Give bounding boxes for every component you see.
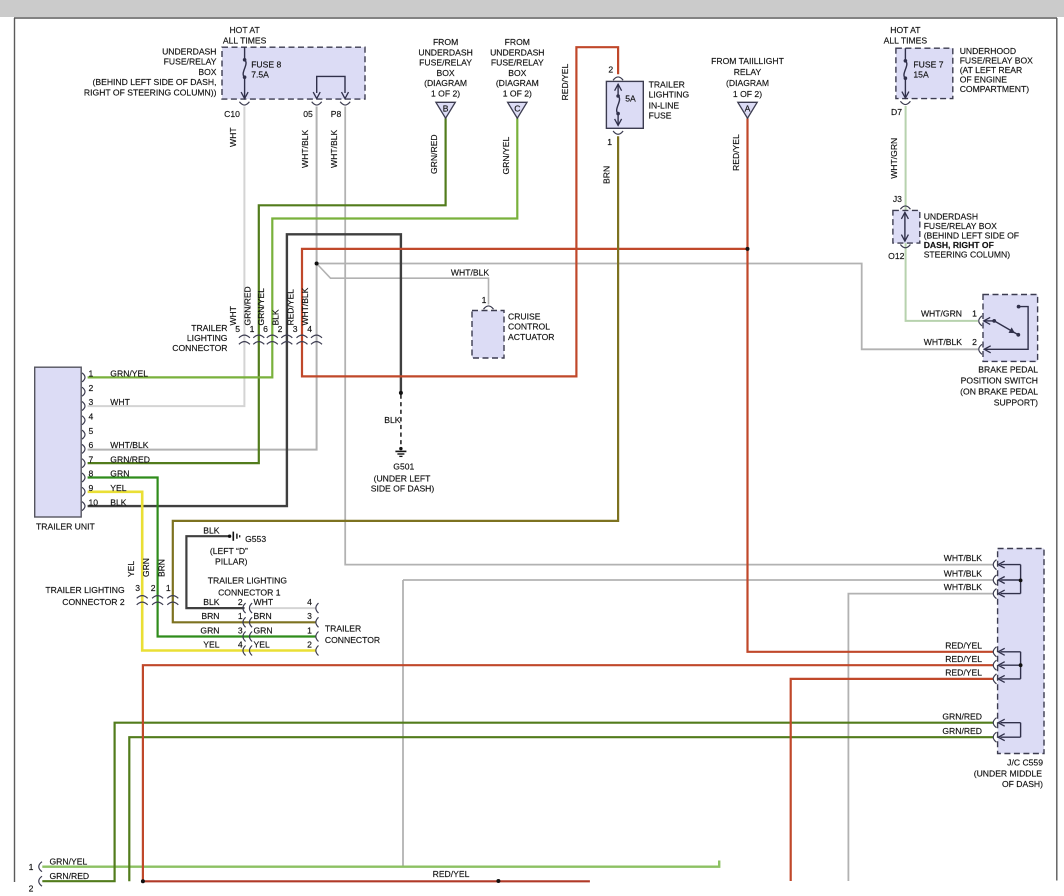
- trailer unit: [35, 367, 81, 517]
- svg-text:7: 7: [89, 454, 94, 464]
- svg-text:C: C: [514, 104, 520, 114]
- svg-text:FUSE 8: FUSE 8: [251, 60, 281, 70]
- svg-text:GRN: GRN: [254, 625, 273, 635]
- svg-text:(DIAGRAM: (DIAGRAM: [496, 78, 539, 88]
- svg-text:HOT AT: HOT AT: [890, 25, 921, 35]
- svg-text:OF DASH): OF DASH): [1002, 779, 1043, 789]
- underhood fuse/relay box: [896, 48, 953, 98]
- svg-text:WHT: WHT: [228, 127, 238, 147]
- svg-text:RED/YEL: RED/YEL: [731, 134, 741, 171]
- svg-text:TRAILER: TRAILER: [649, 80, 685, 90]
- svg-text:B: B: [443, 104, 449, 114]
- svg-text:(BEHIND LEFT SIDE OF: (BEHIND LEFT SIDE OF: [924, 231, 1019, 241]
- wire YEL trailer unit pin 9 to trailer connector: [88, 492, 316, 651]
- svg-text:WHT/BLK: WHT/BLK: [944, 569, 982, 579]
- svg-text:FUSE: FUSE: [649, 111, 672, 121]
- wire WHT/GRN D7-J3-O12 to brake pedal switch pin 1: [906, 106, 978, 321]
- wire RED/YEL from in-line fuse pin 2 loop to junction: [302, 47, 748, 376]
- underdash fuse/relay box (pass-through): [893, 210, 920, 243]
- svg-text:05: 05: [303, 109, 313, 119]
- svg-text:BLK: BLK: [110, 497, 127, 507]
- svg-text:BOX: BOX: [437, 68, 455, 78]
- wire GRN/RED second to J/C C559 pin GRN/RED 2: [129, 737, 993, 881]
- svg-text:BRN: BRN: [602, 166, 612, 184]
- svg-text:(UNDER LEFT: (UNDER LEFT: [374, 474, 432, 484]
- svg-text:GRN/YEL: GRN/YEL: [110, 369, 148, 379]
- svg-text:GRN: GRN: [200, 625, 219, 635]
- svg-text:CRUISE: CRUISE: [508, 312, 541, 322]
- wire WHT right half of row 1: [251, 607, 317, 609]
- svg-text:HOT AT: HOT AT: [229, 25, 260, 35]
- svg-text:RIGHT OF STEERING COLUMN)): RIGHT OF STEERING COLUMN)): [84, 87, 217, 97]
- svg-text:6: 6: [89, 440, 94, 450]
- wire WHT C10 to trailer unit pin 3: [88, 107, 245, 407]
- svg-text:UNDERDASH: UNDERDASH: [162, 47, 216, 57]
- svg-text:P8: P8: [331, 109, 342, 119]
- svg-text:G553: G553: [245, 534, 266, 544]
- underdash fuse/relay box: [222, 47, 365, 99]
- svg-text:RED/YEL: RED/YEL: [433, 869, 470, 879]
- svg-text:WHT/BLK: WHT/BLK: [451, 268, 489, 278]
- svg-text:15A: 15A: [913, 70, 929, 80]
- svg-text:2: 2: [151, 583, 156, 593]
- trailer unit pin 5: [82, 430, 85, 439]
- svg-text:WHT/GRN: WHT/GRN: [889, 138, 899, 179]
- svg-text:3: 3: [89, 397, 94, 407]
- svg-text:BRN: BRN: [201, 611, 219, 621]
- junction connector J/C C559: [998, 549, 1044, 754]
- ground G553: [228, 535, 231, 538]
- svg-text:TRAILER LIGHTING: TRAILER LIGHTING: [45, 585, 125, 595]
- trailer unit pin 8: [82, 473, 85, 482]
- svg-text:OF ENGINE: OF ENGINE: [960, 75, 1008, 85]
- svg-text:RED/YEL: RED/YEL: [560, 64, 570, 101]
- svg-text:1: 1: [166, 583, 171, 593]
- frame border: [14, 18, 16, 882]
- svg-text:YEL: YEL: [110, 483, 126, 493]
- svg-text:GRN/RED: GRN/RED: [50, 871, 90, 881]
- svg-text:WHT: WHT: [254, 597, 274, 607]
- svg-text:PILLAR): PILLAR): [215, 557, 248, 567]
- trailer unit pin 10: [82, 502, 85, 511]
- svg-text:CONNECTOR: CONNECTOR: [172, 343, 227, 353]
- svg-text:(LEFT “D”: (LEFT “D”: [210, 546, 248, 556]
- svg-text:UNDERDASH: UNDERDASH: [924, 212, 978, 222]
- svg-text:GRN/RED: GRN/RED: [942, 726, 982, 736]
- svg-text:(UNDER MIDDLE: (UNDER MIDDLE: [974, 769, 1043, 779]
- svg-text:3: 3: [135, 583, 140, 593]
- svg-text:LIGHTING: LIGHTING: [649, 90, 690, 100]
- svg-text:3: 3: [307, 611, 312, 621]
- svg-text:COMPARTMENT): COMPARTMENT): [960, 84, 1030, 94]
- svg-text:WHT/GRN: WHT/GRN: [921, 309, 962, 319]
- trailer unit pin 9: [82, 487, 85, 496]
- trailer unit pin 4: [82, 416, 85, 425]
- wire RED/YEL from J/C C559 pin 3 down: [791, 679, 993, 881]
- svg-text:TRAILER UNIT: TRAILER UNIT: [36, 522, 95, 532]
- svg-text:BRAKE PEDAL: BRAKE PEDAL: [978, 365, 1038, 375]
- svg-text:2: 2: [29, 884, 34, 894]
- svg-text:RED/YEL: RED/YEL: [945, 668, 982, 678]
- svg-text:BRN: BRN: [156, 559, 166, 577]
- svg-text:IN-LINE: IN-LINE: [649, 101, 680, 111]
- svg-text:FUSE/RELAY BOX: FUSE/RELAY BOX: [960, 56, 1033, 66]
- trailer lighting in-line fuse: [613, 77, 623, 80]
- junction dot RED/YEL node: [746, 247, 750, 251]
- svg-text:5A: 5A: [625, 94, 636, 104]
- fuse F7 symbol: [904, 48, 906, 61]
- trailer unit pin 3: [82, 402, 85, 411]
- svg-text:GRN/RED: GRN/RED: [429, 134, 439, 174]
- svg-text:TRAILER LIGHTING: TRAILER LIGHTING: [208, 576, 288, 586]
- wire GRN/YEL bottom row: [42, 861, 719, 867]
- svg-text:YEL: YEL: [203, 639, 219, 649]
- junction dot RED/YEL bottom: [141, 879, 145, 883]
- connector P8: [340, 102, 350, 105]
- svg-text:2: 2: [608, 65, 613, 75]
- svg-text:C10: C10: [224, 109, 240, 119]
- svg-text:(DIAGRAM: (DIAGRAM: [424, 78, 467, 88]
- svg-text:UNDERHOOD: UNDERHOOD: [960, 46, 1016, 56]
- svg-text:BLK: BLK: [203, 526, 220, 536]
- svg-text:4: 4: [307, 597, 312, 607]
- wire WHT/BLK branch to brake pedal switch pin 2: [317, 264, 978, 350]
- svg-text:J/C C559: J/C C559: [1007, 758, 1043, 768]
- svg-text:1: 1: [238, 611, 243, 621]
- svg-text:WHT/BLK: WHT/BLK: [300, 130, 310, 168]
- wire GRN/YEL from triangle C to trailer unit pin 1: [88, 118, 518, 377]
- svg-text:A: A: [745, 104, 751, 114]
- wire WHT/BLK branch to cruise control actuator pin 1: [317, 264, 489, 305]
- svg-text:WHT/BLK: WHT/BLK: [300, 287, 310, 325]
- svg-text:1: 1: [607, 137, 612, 147]
- junction dot WHT/BLK node: [315, 262, 319, 266]
- svg-text:FROM TAIILLIGHT: FROM TAIILLIGHT: [711, 56, 784, 66]
- svg-text:ALL TIMES: ALL TIMES: [223, 36, 267, 46]
- svg-text:1 OF 2): 1 OF 2): [733, 89, 762, 99]
- svg-text:D7: D7: [891, 107, 902, 117]
- connector O12: [900, 245, 910, 248]
- wire BLK trailer unit pin 10 to splice: [88, 234, 401, 506]
- wire BLK from ground G553 to trailer connector: [186, 536, 244, 608]
- svg-text:RED/YEL: RED/YEL: [945, 654, 982, 664]
- svg-text:2: 2: [307, 639, 312, 649]
- svg-text:TRAILER: TRAILER: [191, 323, 227, 333]
- svg-text:ACTUATOR: ACTUATOR: [508, 332, 554, 342]
- wire WHT/BLK middle to J/C C559 pin 2: [403, 579, 993, 581]
- svg-text:WHT: WHT: [110, 397, 130, 407]
- cruise control actuator: [484, 306, 494, 309]
- svg-text:1: 1: [307, 625, 312, 635]
- svg-text:CONTROL: CONTROL: [508, 322, 550, 332]
- svg-text:1: 1: [482, 295, 487, 305]
- svg-text:BLK: BLK: [270, 309, 280, 325]
- svg-text:FROM: FROM: [433, 37, 458, 47]
- svg-text:BLK: BLK: [384, 415, 401, 425]
- svg-text:GRN/YEL: GRN/YEL: [501, 137, 511, 175]
- svg-text:WHT/BLK: WHT/BLK: [329, 130, 339, 168]
- svg-text:YEL: YEL: [254, 639, 270, 649]
- svg-text:GRN: GRN: [110, 469, 129, 479]
- svg-text:GRN/RED: GRN/RED: [110, 454, 150, 464]
- svg-text:9: 9: [89, 483, 94, 493]
- svg-text:RELAY: RELAY: [734, 67, 762, 77]
- wire GRN/RED bottom row to J/C C559 pin GRN/RED 1: [42, 723, 993, 882]
- svg-text:STEERING COLUMN): STEERING COLUMN): [924, 250, 1011, 260]
- svg-text:GRN/RED: GRN/RED: [942, 711, 982, 721]
- svg-text:FUSE/RELAY: FUSE/RELAY: [491, 58, 544, 68]
- svg-text:UNDERDASH: UNDERDASH: [490, 47, 544, 57]
- svg-text:RED/YEL: RED/YEL: [945, 640, 982, 650]
- svg-text:ALL TIMES: ALL TIMES: [884, 36, 928, 46]
- svg-text:RED/YEL: RED/YEL: [286, 289, 296, 326]
- svg-text:2: 2: [89, 383, 94, 393]
- wire RED/YEL from J/C C559 pin 2 down to bottom: [143, 665, 993, 881]
- svg-text:GRN/RED: GRN/RED: [242, 286, 252, 325]
- svg-text:GRN: GRN: [141, 558, 151, 577]
- wire RED/YEL from triangle A to J/C C559: [748, 118, 994, 652]
- svg-text:1: 1: [29, 862, 34, 872]
- svg-text:3: 3: [238, 625, 243, 635]
- brake pedal position switch: [983, 295, 1038, 362]
- wire RED/YEL bottom row: [143, 880, 590, 882]
- svg-text:2: 2: [972, 337, 977, 347]
- svg-text:SIDE OF DASH): SIDE OF DASH): [371, 484, 435, 494]
- svg-text:2: 2: [238, 597, 243, 607]
- svg-text:FROM: FROM: [505, 37, 530, 47]
- svg-text:8: 8: [89, 469, 94, 479]
- svg-text:G501: G501: [393, 462, 414, 472]
- svg-text:1: 1: [972, 309, 977, 319]
- svg-text:1 OF 2): 1 OF 2): [431, 89, 460, 99]
- wire WHT/BLK vertical to page bottom: [402, 580, 404, 866]
- svg-text:4: 4: [89, 412, 94, 422]
- svg-text:GRN/YEL: GRN/YEL: [50, 857, 88, 867]
- svg-text:WHT/BLK: WHT/BLK: [924, 337, 962, 347]
- svg-text:WHT: WHT: [228, 306, 238, 325]
- switch symbol: [984, 317, 991, 324]
- svg-text:1: 1: [89, 369, 94, 379]
- svg-text:CONNECTOR 2: CONNECTOR 2: [62, 597, 125, 607]
- svg-text:LIGHTING: LIGHTING: [187, 333, 228, 343]
- svg-text:BLK: BLK: [203, 597, 220, 607]
- top gray band: [0, 0, 1064, 17]
- wire BLK dashed to ground G501: [400, 395, 402, 447]
- wire WHT/BLK 05 to trailer unit pin 6: [88, 107, 317, 450]
- svg-text:FUSE 7: FUSE 7: [913, 60, 943, 70]
- svg-text:FUSE/RELAY: FUSE/RELAY: [419, 58, 472, 68]
- svg-text:10: 10: [89, 497, 99, 507]
- svg-text:BOX: BOX: [198, 67, 216, 77]
- svg-text:J3: J3: [893, 194, 902, 204]
- svg-text:WHT/BLK: WHT/BLK: [944, 553, 982, 563]
- trailer unit pin 7: [82, 459, 85, 468]
- svg-text:WHT/BLK: WHT/BLK: [110, 440, 148, 450]
- svg-text:UNDERDASH: UNDERDASH: [418, 47, 472, 57]
- svg-text:1 OF 2): 1 OF 2): [503, 89, 532, 99]
- svg-text:(BEHIND LEFT SIDE OF DASH,: (BEHIND LEFT SIDE OF DASH,: [93, 77, 217, 87]
- wire GRN trailer unit pin 8 to trailer connector: [88, 478, 316, 637]
- svg-text:WHT/BLK: WHT/BLK: [944, 582, 982, 592]
- svg-text:SUPPORT): SUPPORT): [994, 398, 1038, 408]
- junction dot BLK splice: [399, 391, 403, 395]
- wire WHT/BLK P8 to J/C C559 pin 1: [345, 107, 993, 565]
- svg-text:7.5A: 7.5A: [251, 70, 269, 80]
- svg-text:GRN/YEL: GRN/YEL: [256, 288, 266, 326]
- svg-text:YEL: YEL: [126, 561, 136, 577]
- svg-text:POSITION SWITCH: POSITION SWITCH: [961, 376, 1038, 386]
- trailer unit pin 1: [82, 373, 85, 382]
- connector D7: [900, 101, 910, 104]
- ground G501: [399, 447, 402, 450]
- svg-text:4: 4: [238, 639, 243, 649]
- svg-text:CONNECTOR 1: CONNECTOR 1: [218, 587, 281, 597]
- connector 05: [312, 102, 322, 105]
- junction dot RED/YEL bottom 2: [496, 879, 500, 883]
- trailer unit pin 2: [82, 387, 85, 396]
- svg-text:FUSE/RELAY BOX: FUSE/RELAY BOX: [924, 221, 997, 231]
- svg-text:BRN: BRN: [254, 611, 272, 621]
- bridge 05-P8: [317, 76, 345, 93]
- wire GRN/RED from triangle B to trailer unit pin 7: [88, 118, 446, 463]
- wire WHT/BLK from J/C C559 pin 3 down: [848, 594, 993, 881]
- svg-text:5: 5: [89, 426, 94, 436]
- svg-text:CONNECTOR: CONNECTOR: [325, 635, 380, 645]
- wire BRN from in-line fuse pin 1 to trailer connector: [173, 136, 618, 622]
- svg-text:TRAILER: TRAILER: [325, 624, 361, 634]
- svg-text:(AT LEFT REAR: (AT LEFT REAR: [960, 65, 1023, 75]
- svg-text:O12: O12: [888, 251, 904, 261]
- svg-text:(ON BRAKE PEDAL: (ON BRAKE PEDAL: [960, 387, 1038, 397]
- fuse F8 symbol: [244, 47, 246, 60]
- svg-text:DASH, RIGHT OF: DASH, RIGHT OF: [924, 240, 994, 250]
- svg-text:FUSE/RELAY: FUSE/RELAY: [164, 57, 217, 67]
- svg-text:BOX: BOX: [508, 68, 526, 78]
- connector C10: [239, 102, 249, 105]
- svg-text:(DIAGRAM: (DIAGRAM: [726, 78, 769, 88]
- trailer unit pin 6: [82, 444, 85, 453]
